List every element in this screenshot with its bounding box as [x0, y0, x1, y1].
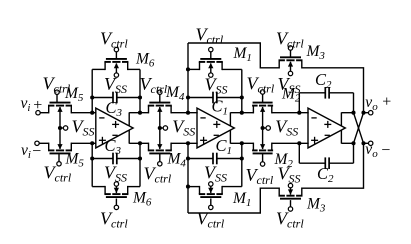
label V_ctrl of M4 bottom: [144, 164, 172, 186]
transistor M5 (top): [48, 90, 72, 113]
wire M1 bottom source to stage2 input rail: [188, 186, 200, 188]
wire crossover U3- to v_o+: [354, 113, 364, 144]
VSS terminal of M5 pair: [60, 126, 68, 130]
VSS terminal of M2 pair: [263, 126, 271, 130]
wire M1 top source to stage2 input rail: [188, 68, 200, 70]
wire U1 minus output to M4 bottom source: [129, 142, 148, 144]
label V_SS of M1 bottom bulk: [204, 163, 227, 185]
wire crossover U3+ to v_o-: [354, 113, 364, 144]
label V_ctrl of M6 bottom: [100, 209, 128, 231]
wire U2 minus output to M2 bottom source: [230, 142, 253, 144]
label V_SS of M2 pair: [275, 117, 298, 139]
wire U3 minus output: [341, 142, 353, 144]
wire M5 top drain to opamp U1 inverting input: [71, 112, 96, 114]
junction stage1 plus-input node: [90, 141, 94, 145]
wire M4 bulk rail: [159, 107, 161, 149]
label C3 (top): [106, 98, 123, 119]
capacitor C1 (top): [188, 92, 242, 104]
wire stage2 top output rail: [241, 69, 243, 112]
junction stage1 plus-output node: [138, 111, 142, 115]
wire M6 bottom source to input rail: [92, 186, 105, 188]
wire stage1 bottom input rail: [91, 143, 93, 186]
junction M2 bulk VSS node: [261, 126, 265, 130]
capacitor C3 (top): [92, 92, 140, 104]
label M3 (top): [306, 43, 326, 62]
label V_ctrl of M3 bottom: [276, 209, 304, 231]
junction M1 bottom source node: [186, 185, 190, 189]
wire C2 bottom right rail: [353, 143, 355, 163]
label M6 (top): [135, 51, 155, 70]
transistor M3 (bottom): [279, 183, 303, 211]
label V_SS of M5 pair: [72, 117, 95, 139]
transistor M6 (bottom): [104, 182, 128, 210]
output terminal v_o+: [364, 111, 373, 115]
label V_ctrl of M1 bottom: [197, 209, 225, 231]
junction M4 bulk VSS node: [158, 126, 162, 130]
transistor M5 (bottom): [48, 143, 72, 166]
label V_ctrl of M4 top: [140, 74, 168, 96]
junction stage1 minus-output node: [138, 141, 142, 145]
junction C1 top left: [186, 95, 190, 99]
wire M4 top drain to opamp U2 inverting input: [171, 112, 198, 114]
wire stage2 bottom input rail: [187, 143, 189, 213]
label M1 (bottom): [232, 190, 251, 209]
wire M6 top drain to output rail: [128, 68, 140, 70]
wire stage1 top output rail: [139, 69, 141, 112]
wire stage3 bottom input rail: [298, 143, 300, 163]
wire stage1 bottom output rail: [139, 143, 141, 186]
wire M1 top drain to stage2 output rail: [222, 68, 242, 70]
label V_SS of M3 top bulk: [278, 74, 301, 96]
svg-text:+: +: [382, 94, 391, 111]
wire stage2 minus-input to M3 top source: [188, 43, 279, 68]
label V_ctrl of M2 bottom: [246, 165, 274, 187]
junction C1 bottom left: [186, 156, 190, 160]
junction M1 top source node: [186, 67, 190, 71]
wire stage1 top input rail: [91, 69, 93, 112]
svg-text:−: −: [32, 143, 41, 160]
wire stage3 top input rail: [298, 93, 300, 113]
wire M5 bottom drain to opamp U1 noninverting input: [71, 142, 96, 144]
junction stage1 minus-input node: [90, 111, 94, 115]
wire M1 bottom drain to stage2 output rail: [222, 186, 242, 188]
junction C3 top left: [90, 95, 94, 99]
wire M5 bulk rail: [59, 107, 61, 149]
junction stage2 minus-output node: [240, 141, 244, 145]
wire M3 top drain to output v_o+ rail: [302, 68, 364, 113]
wire C2 top right rail: [353, 93, 355, 113]
label V_SS of M1 top bulk: [205, 75, 228, 97]
label M5 (bottom): [65, 151, 85, 170]
capacitor C1 (bottom): [188, 153, 242, 165]
label M2 (top): [281, 86, 301, 105]
wire M6 top source to input rail: [92, 68, 105, 70]
svg-text:−: −: [381, 142, 390, 159]
capacitor C3 (bottom): [92, 153, 140, 165]
junction stage2 plus-output node: [240, 111, 244, 115]
capacitor C2 (bottom): [299, 157, 353, 169]
junction v_o- node: [361, 141, 365, 145]
label M1 (top): [233, 45, 252, 64]
junction C3 bottom right: [138, 156, 142, 160]
transistor M2 (bottom): [252, 143, 273, 167]
output terminal v_o-: [364, 141, 373, 145]
label M5 (top): [64, 85, 84, 104]
junction stage2 minus-input node: [186, 111, 190, 115]
label V_ctrl of M6 top: [100, 29, 128, 51]
transistor M6 (top): [104, 47, 128, 77]
junction stage3 plus-input node: [297, 141, 301, 145]
wire U3 plus output: [341, 112, 353, 114]
transistor M1 (top): [199, 47, 223, 77]
junction M5 bulk VSS node: [58, 126, 62, 130]
wire M6 bottom drain to output rail: [128, 186, 140, 188]
op-amp U2: [197, 108, 234, 148]
wire stage2 top input rail: [187, 43, 189, 113]
junction stage2 plus-input node: [186, 141, 190, 145]
input terminal v_i-: [35, 141, 49, 145]
transistor M1 (bottom): [199, 182, 223, 210]
wire U1 plus output to M4 top source: [129, 112, 148, 114]
wire M2 top drain to opamp U3 inverting input: [272, 112, 309, 114]
label V_ctrl of M1 top: [196, 25, 224, 47]
label M4 (bottom): [167, 151, 187, 170]
wire stage2 plus-input to M3 bottom source: [188, 188, 279, 213]
wire stage2 bottom output rail: [241, 143, 243, 186]
label C1 (top): [212, 97, 229, 118]
label v_o-: [365, 141, 390, 160]
op-amp U3: [308, 108, 345, 148]
label V_ctrl of M5 bottom: [44, 163, 72, 185]
label M4 (top): [165, 84, 185, 103]
label C3 (bottom): [105, 136, 122, 157]
wire M3 bottom drain to output v_o- rail: [302, 143, 364, 188]
transistor M2 (top): [252, 90, 273, 114]
transistor M4 (top): [148, 90, 172, 113]
junction C1 top right: [240, 95, 244, 99]
label v_i+: [21, 95, 43, 114]
svg-text:+: +: [33, 97, 42, 114]
label C2 (top): [315, 70, 332, 91]
label V_SS of M6 bottom bulk: [104, 163, 127, 185]
label C2 (bottom): [317, 164, 334, 185]
junction stage3 minus-input node: [297, 111, 301, 115]
label M3 (bottom): [306, 196, 326, 215]
label V_SS of M3 bottom bulk: [278, 164, 301, 186]
transistor M4 (bottom): [148, 143, 172, 166]
junction C1 bottom right: [240, 156, 244, 160]
label V_ctrl of M2 top: [247, 74, 275, 96]
wire M2 bulk rail: [262, 107, 264, 149]
wire M4 bottom drain to opamp U2 noninverting input: [171, 142, 198, 144]
label M6 (bottom): [132, 190, 152, 209]
label v_i-: [21, 142, 41, 161]
label M2 (bottom): [274, 151, 294, 170]
label V_ctrl of M5 top: [43, 74, 71, 96]
VSS terminal of M4 pair: [160, 126, 168, 130]
label C1 (bottom): [216, 136, 233, 157]
label V_SS of M6 top bulk: [104, 74, 127, 96]
capacitor C2 (top): [299, 87, 353, 99]
input terminal v_i+: [36, 111, 49, 115]
op-amp U1: [96, 108, 133, 148]
junction v_o+ node: [361, 111, 365, 115]
label V_ctrl of M3 top: [276, 29, 304, 51]
label v_o+: [365, 94, 391, 113]
label V_SS of M4 pair: [172, 117, 195, 139]
wire U2 plus output to M2 top source: [230, 112, 253, 114]
junction U3 minus output node: [351, 141, 355, 145]
wire M2 bottom drain to opamp U3 noninverting input: [272, 142, 309, 144]
junction U3 plus output node: [351, 111, 355, 115]
junction C3 top right: [138, 95, 142, 99]
transistor M3 (top): [279, 46, 303, 76]
junction C3 bottom left: [90, 156, 94, 160]
